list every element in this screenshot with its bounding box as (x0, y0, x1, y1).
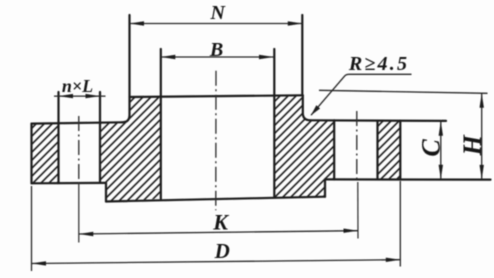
svg-text:R≥4.5: R≥4.5 (348, 53, 409, 75)
svg-text:B: B (209, 39, 223, 61)
svg-text:N: N (209, 2, 226, 24)
svg-text:D: D (214, 239, 230, 263)
svg-text:K: K (212, 210, 229, 235)
svg-text:n×L: n×L (62, 76, 93, 96)
svg-text:H: H (458, 134, 487, 156)
svg-text:C: C (417, 139, 446, 157)
